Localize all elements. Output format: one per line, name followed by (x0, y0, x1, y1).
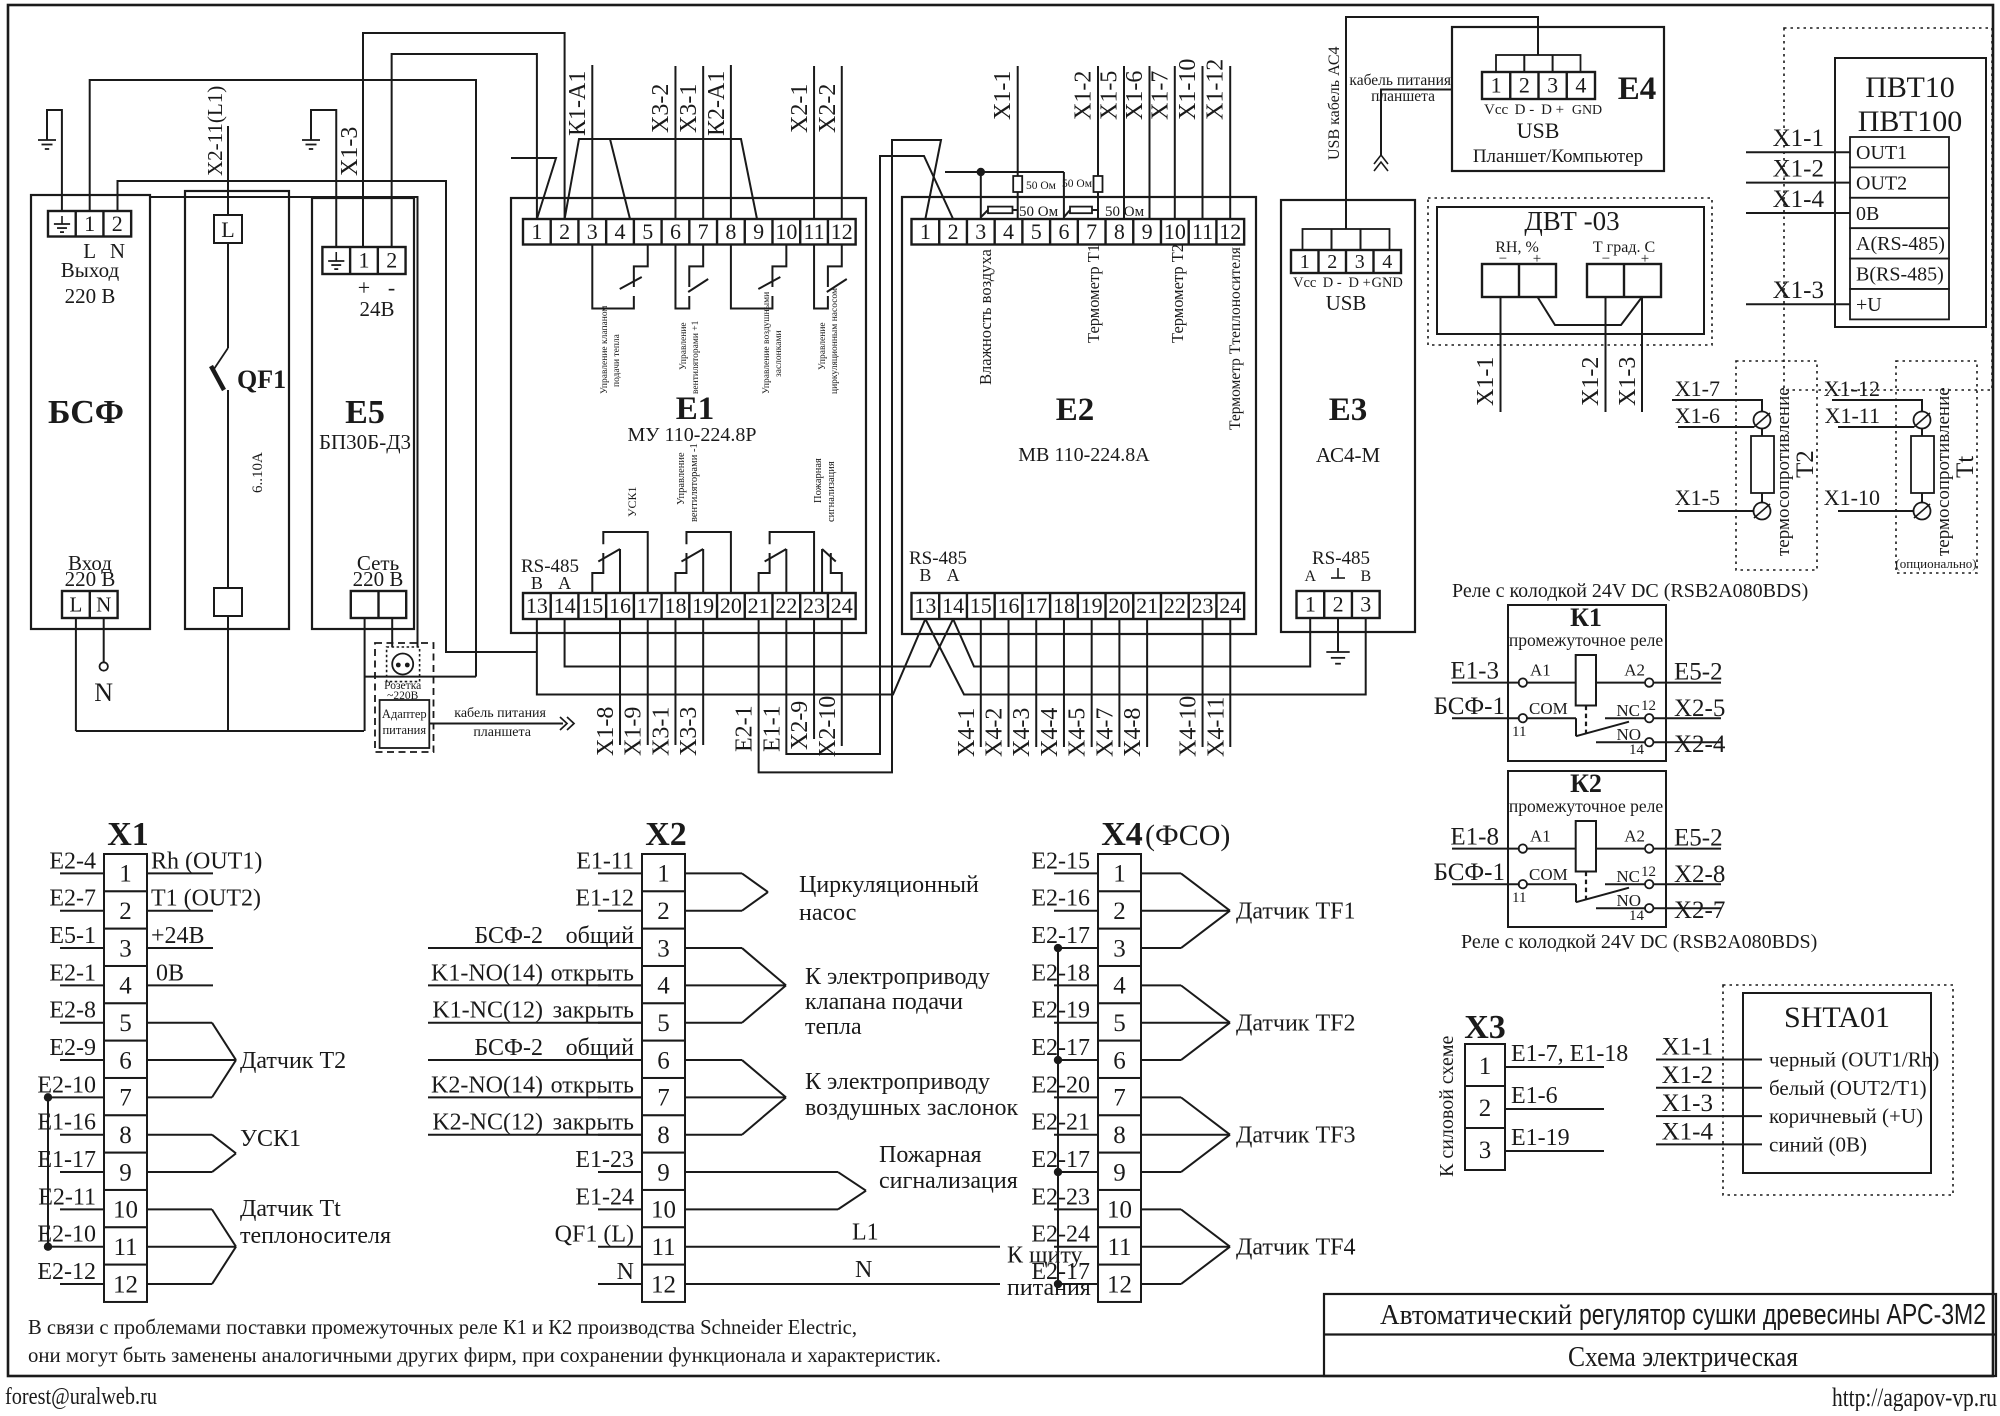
svg-text:220 В: 220 В (65, 567, 116, 591)
svg-text:А: А (1305, 568, 1317, 585)
svg-text:22: 22 (1164, 593, 1186, 618)
svg-text:Х2-5: Х2-5 (1674, 695, 1725, 722)
svg-text:Х1-2: Х1-2 (1578, 357, 1604, 406)
svg-text:1: 1 (1305, 592, 1316, 617)
sensor Tt group on X1 (147, 1208, 212, 1210)
svg-text:Управление: Управление (676, 452, 687, 505)
wire Х4-3 from E2-17 (1035, 619, 1037, 747)
svg-text:1: 1 (1300, 251, 1310, 273)
block PVT10 inner (1835, 58, 1986, 327)
svg-text:Термометр Т2: Термометр Т2 (1168, 244, 1187, 343)
svg-text:Циркуляционный: Циркуляционный (799, 872, 979, 898)
svg-text:вентиляторами -1: вентиляторами -1 (689, 443, 700, 522)
wire Х4-4 from E2-18 (1063, 619, 1065, 747)
svg-text:+U: +U (1856, 294, 1882, 316)
svg-text:6: 6 (657, 1047, 670, 1074)
svg-text:Е2-19: Е2-19 (1031, 998, 1090, 1024)
terminal strip DVT T (1587, 264, 1661, 297)
svg-text:БСФ-2: БСФ-2 (474, 1035, 543, 1061)
svg-text:Х1-5: Х1-5 (1675, 485, 1720, 510)
svg-text:11: 11 (651, 1234, 675, 1261)
svg-text:X3: X3 (1464, 1009, 1506, 1046)
svg-text:они могут быть заменены аналог: они могут быть заменены аналогичными дру… (28, 1343, 941, 1367)
svg-text:Е2-20: Е2-20 (1031, 1072, 1090, 1098)
svg-text:USB: USB (1517, 118, 1560, 143)
terminal strip E4 USB (1482, 72, 1595, 99)
svg-text:Е2-1: Е2-1 (732, 705, 758, 752)
svg-text:9: 9 (1142, 219, 1153, 244)
svg-text:5: 5 (1031, 219, 1042, 244)
svg-text:11: 11 (1512, 724, 1526, 740)
svg-text:Е5-1: Е5-1 (49, 923, 96, 949)
svg-text:А: А (947, 565, 960, 585)
svg-text:Х1-2: Х1-2 (1773, 156, 1824, 183)
pin B(RS-485) of PVT10 (1850, 259, 1949, 289)
wire RS-485 B to E3 (925, 619, 1365, 695)
svg-text:питания: питания (382, 723, 426, 737)
svg-text:ПВТ10: ПВТ10 (1865, 71, 1955, 104)
svg-text:20: 20 (1108, 593, 1130, 618)
svg-text:14: 14 (554, 593, 576, 618)
svg-text:10: 10 (1107, 1197, 1132, 1224)
block E4 tablet (1452, 27, 1664, 171)
wire T1 OUT2 from X1-2 (147, 910, 213, 912)
terminal strip E5 mains (351, 591, 406, 618)
svg-text:ПВТ100: ПВТ100 (1858, 105, 1963, 138)
svg-text:14: 14 (1629, 908, 1645, 924)
svg-text:Х1-10: Х1-10 (1824, 485, 1880, 510)
terminal strip DVT RH (1482, 264, 1556, 297)
arrow tablet cable (560, 717, 567, 730)
wire Х4-8 from E2-21 (1146, 619, 1148, 747)
wire bus E5-1 to E1-2 (+24V) (363, 33, 565, 247)
svg-text:K2-NC(12): K2-NC(12) (432, 1110, 543, 1136)
terminal strip BSF output (48, 211, 131, 237)
svg-text:Управление клапаном: Управление клапаном (600, 306, 610, 394)
svg-text:D +: D + (1541, 102, 1564, 118)
svg-text:Х1-6: Х1-6 (1122, 71, 1148, 120)
svg-text:Х1-7: Х1-7 (1147, 71, 1173, 120)
wire mains L horizontal (76, 730, 364, 732)
svg-text:БСФ-1: БСФ-1 (1434, 693, 1505, 720)
svg-text:13: 13 (914, 593, 936, 618)
svg-text:50 Ом: 50 Ом (1062, 178, 1093, 190)
svg-text:Е2-1: Е2-1 (49, 960, 96, 986)
svg-text:Е2-23: Е2-23 (1031, 1184, 1090, 1210)
svg-text:Х1-4: Х1-4 (1662, 1118, 1714, 1145)
svg-text:Датчик ТF1: Датчик ТF1 (1236, 899, 1355, 925)
svg-text:12: 12 (1107, 1271, 1132, 1298)
svg-text:коричневый (+U): коричневый (+U) (1769, 1104, 1923, 1128)
svg-text:1: 1 (920, 219, 931, 244)
svg-text:Е2: Е2 (1056, 392, 1095, 428)
svg-text:15: 15 (970, 593, 992, 618)
wire N to power panel (685, 1283, 1000, 1285)
svg-text:закрыть: закрыть (553, 998, 634, 1024)
svg-text:4: 4 (1382, 251, 1392, 273)
wire Rh OUT1 from X1-1 (147, 872, 213, 874)
svg-text:24В: 24В (359, 297, 394, 321)
svg-text:ДВТ -03: ДВТ -03 (1524, 206, 1619, 236)
contact E1 relay 4 (cells 11-12) (814, 245, 828, 309)
svg-text:Х4-4: Х4-4 (1037, 708, 1063, 757)
svg-text:X1: X1 (107, 816, 149, 853)
svg-text:Rh (OUT1): Rh (OUT1) (151, 848, 262, 874)
svg-text:Термометр Ттеплоносителя: Термометр Ттеплоносителя (1227, 247, 1244, 430)
svg-text:1: 1 (84, 211, 95, 236)
wire Х1-9 from E1-17 (647, 619, 649, 745)
svg-text:МУ 110-224.8Р: МУ 110-224.8Р (628, 424, 757, 446)
svg-text:5: 5 (119, 1010, 132, 1037)
svg-text:(ФСО): (ФСО) (1145, 819, 1230, 852)
svg-text:кабель питания: кабель питания (1349, 72, 1451, 89)
svg-text:5: 5 (657, 1010, 670, 1037)
wire Х4-2 from E2-16 (1008, 619, 1010, 747)
svg-text:4: 4 (657, 973, 670, 1000)
svg-text:8: 8 (1113, 1122, 1126, 1149)
svg-text:10: 10 (651, 1197, 676, 1224)
wire jumper bus E1-2 to E1-9 (565, 139, 757, 219)
svg-text:Х2-10: Х2-10 (815, 696, 841, 757)
svg-text:В: В (531, 573, 543, 593)
svg-text:20: 20 (720, 593, 742, 618)
wire Х4-1 from E2-15 (980, 619, 982, 747)
svg-text:L: L (221, 217, 234, 242)
svg-text:насос: насос (799, 900, 856, 926)
wire +24V from X1-3 (147, 947, 213, 949)
svg-text:белый (OUT2/T1): белый (OUT2/T1) (1769, 1076, 1927, 1100)
svg-text:3: 3 (1355, 251, 1365, 273)
wire N bus BSF-2 (118, 181, 537, 652)
terminal strip E1 lower 13-24 (523, 593, 856, 619)
sensor Датчик ТF2 group on X4 (1141, 984, 1181, 986)
svg-text:18: 18 (664, 593, 686, 618)
svg-text:QF1 (L): QF1 (L) (555, 1222, 634, 1248)
svg-text:1: 1 (1479, 1053, 1492, 1080)
svg-text:9: 9 (1113, 1159, 1126, 1186)
svg-text:2: 2 (112, 211, 123, 236)
svg-text:Х3-1: Х3-1 (648, 707, 674, 756)
svg-text:А1: А1 (1530, 661, 1551, 680)
svg-text:8: 8 (119, 1122, 132, 1149)
svg-text:19: 19 (1081, 593, 1103, 618)
terminal L of QF1 (214, 215, 242, 243)
svg-text:Е1-7, Е1-18: Е1-7, Е1-18 (1511, 1041, 1628, 1067)
wire RS-485 A net E1-14 to E2-14 (565, 619, 954, 667)
svg-text:сигнализация: сигнализация (826, 461, 837, 522)
svg-text:17: 17 (1025, 593, 1047, 618)
wire tablet power cable (429, 723, 563, 725)
svg-text:промежуточное реле: промежуточное реле (1509, 630, 1663, 650)
svg-text:Х1-12: Х1-12 (1203, 59, 1229, 120)
svg-text:Х4-1: Х4-1 (954, 708, 980, 757)
svg-text:0В: 0В (1856, 203, 1879, 225)
svg-text:Х4-3: Х4-3 (1009, 708, 1035, 757)
wire K1-NC(12) to X2-5 (428, 1022, 642, 1024)
wire K2-NO(14) to X2-7 (428, 1096, 642, 1098)
svg-text:2: 2 (1327, 251, 1337, 273)
svg-text:А2: А2 (1624, 827, 1645, 846)
contact E1 relay 3 (cells 8-10) (731, 245, 773, 309)
USB comb E3 (1303, 229, 1390, 250)
svg-text:А: А (558, 573, 571, 593)
svg-text:D -: D - (1323, 275, 1342, 291)
svg-text:Х2-2: Х2-2 (815, 84, 841, 133)
svg-text:50 Ом: 50 Ом (1026, 180, 1057, 192)
svg-text:А2: А2 (1624, 661, 1645, 680)
terminal strip E3 RS-485 (1297, 591, 1380, 618)
svg-text:В: В (1360, 568, 1371, 585)
svg-text:Е1: Е1 (676, 391, 715, 427)
block BSF (31, 195, 150, 629)
svg-text:11: 11 (1512, 890, 1526, 906)
wire K2-NC(12) to X2-8 (428, 1134, 642, 1136)
svg-text:1: 1 (1491, 73, 1502, 98)
terminal bottom of QF1 (214, 588, 242, 616)
wire Х1-1 to SHTA01 (1656, 1059, 1762, 1061)
svg-text:Влажность воздуха: Влажность воздуха (976, 249, 995, 385)
svg-text:Х3-2: Х3-2 (648, 84, 674, 133)
svg-text:Тt: Тt (1952, 456, 1979, 478)
wire Е1-6 from X3-2 (1505, 1108, 1604, 1110)
svg-text:A(RS-485): A(RS-485) (1856, 233, 1945, 255)
svg-text:12: 12 (1219, 219, 1241, 244)
wire socket to 220V riser (365, 676, 476, 678)
wire RS-485 A to E3 (953, 619, 1310, 667)
svg-text:http://agapov-vp.ru: http://agapov-vp.ru (1832, 1383, 1997, 1411)
svg-text:открыть: открыть (551, 960, 634, 986)
contact E1 relay 1 (cells 3-5) (592, 245, 634, 309)
wire Е1-7, Е1-18 from X3-1 (1505, 1066, 1604, 1068)
svg-text:Е1-6: Е1-6 (1511, 1083, 1558, 1109)
wire Х4-5 from E2-19 (1091, 619, 1093, 747)
wire Х1-8 from E1-16 (619, 619, 621, 745)
svg-text:Vcc: Vcc (1484, 102, 1508, 118)
wire E1-1 net from E1-22 (786, 156, 953, 754)
svg-text:X4: X4 (1101, 816, 1143, 853)
svg-text:Е1-23: Е1-23 (575, 1147, 634, 1173)
fire alarm group on X2 (685, 1171, 838, 1173)
svg-text:3: 3 (1113, 935, 1126, 962)
svg-text:БСФ: БСФ (48, 394, 124, 431)
block E5 power supply (312, 198, 414, 629)
svg-text:B(RS-485): B(RS-485) (1856, 264, 1944, 286)
wire BSF N with terminal (103, 618, 105, 662)
socket assembly dashed box (375, 643, 434, 752)
svg-text:подачи тепла: подачи тепла (612, 333, 622, 387)
svg-text:Е2-7: Е2-7 (49, 886, 96, 912)
junction E2-10 on X1 (48, 1096, 60, 1098)
svg-text:Х4-5: Х4-5 (1065, 708, 1091, 757)
wire Х1-3 to SHTA01 (1656, 1115, 1762, 1117)
svg-text:10: 10 (775, 219, 797, 244)
pin 0В of PVT10 (1850, 198, 1949, 228)
svg-text:D +: D + (1349, 275, 1371, 291)
svg-text:5: 5 (1113, 1010, 1126, 1037)
svg-text:БСФ-1: БСФ-1 (1434, 859, 1505, 886)
svg-text:OUT1: OUT1 (1856, 142, 1907, 164)
wire X2-10 from E1-24 (841, 619, 843, 746)
terminal strip E5 24V (322, 247, 405, 274)
svg-text:Е5-2: Е5-2 (1674, 659, 1723, 686)
contact E1 relay 6 (cells 18-20) (675, 553, 686, 593)
svg-text:2: 2 (386, 248, 397, 273)
svg-text:Е5-2: Е5-2 (1674, 825, 1723, 852)
svg-text:Х2-1: Х2-1 (787, 84, 813, 133)
svg-text:4: 4 (1003, 219, 1014, 244)
svg-text:планшета: планшета (1371, 88, 1435, 105)
terminal strip E3 USB (1291, 250, 1401, 273)
svg-text:СОМ: СОМ (1529, 865, 1568, 884)
adapter box (380, 700, 430, 748)
svg-text:В связи с проблемами поставки: В связи с проблемами поставки промежуточ… (28, 1315, 857, 1339)
svg-text:N: N (94, 678, 113, 707)
block SHTA01 dotted (1723, 985, 1953, 1195)
svg-text:заслонками: заслонками (774, 330, 784, 377)
svg-text:Х1-5: Х1-5 (1097, 71, 1123, 120)
svg-text:Е4: Е4 (1618, 71, 1657, 107)
svg-text:Планшет/Компьютер: Планшет/Компьютер (1473, 146, 1643, 167)
svg-text:11: 11 (1107, 1234, 1131, 1261)
wire X1-1 from DVT RH- (1500, 297, 1502, 412)
svg-text:3: 3 (657, 935, 670, 962)
sensor Датчик ТF4 group on X4 (1141, 1208, 1181, 1210)
svg-text:QF1: QF1 (237, 365, 286, 394)
svg-text:вентиляторами +1: вентиляторами +1 (691, 320, 701, 394)
svg-text:24: 24 (1219, 593, 1241, 618)
svg-text:3: 3 (1547, 73, 1558, 98)
svg-text:K1-NC(12): K1-NC(12) (432, 998, 543, 1024)
wire Х1-1 to PVT10 (1746, 151, 1850, 153)
svg-text:воздушных заслонок: воздушных заслонок (805, 1095, 1018, 1121)
svg-text:Х1-11: Х1-11 (1825, 403, 1880, 428)
svg-text:Е2-8: Е2-8 (49, 998, 96, 1024)
svg-text:T1 (OUT2): T1 (OUT2) (151, 886, 261, 912)
svg-text:Е2-9: Е2-9 (49, 1035, 96, 1061)
svg-text:Е1-17: Е1-17 (37, 1147, 96, 1173)
sensor T2 group on X1 (147, 1022, 212, 1024)
svg-text:Термометр Т1: Термометр Т1 (1084, 244, 1103, 343)
svg-text:Е2-4: Е2-4 (49, 848, 96, 874)
svg-text:21: 21 (1136, 593, 1158, 618)
wire tablet power cable stub (1381, 90, 1452, 156)
svg-text:Адаптер: Адаптер (382, 707, 427, 721)
wire BSF top to socket (150, 197, 418, 647)
sensor Датчик ТF3 group on X4 (1141, 1096, 1181, 1098)
relay K2 (1508, 771, 1666, 927)
resistor 50 Ohm E2-3/4 (981, 210, 988, 217)
svg-text:16: 16 (609, 593, 631, 618)
svg-text:Реле с колодкой 24V DC (RSB2A0: Реле с колодкой 24V DC (RSB2A080BDS) (1452, 580, 1808, 602)
svg-text:Е3: Е3 (1329, 392, 1368, 428)
socket 220V dotted box (387, 647, 420, 682)
svg-text:NC: NC (1616, 701, 1640, 720)
terminal strip E2 upper 1-12 (912, 219, 1245, 245)
wire Х4-10 from E2-23 (1202, 619, 1204, 747)
svg-text:D -: D - (1515, 102, 1535, 118)
wire K1-NO(14) to X2-4 (428, 984, 642, 986)
svg-text:21: 21 (748, 593, 770, 618)
svg-text:Vcc: Vcc (1293, 275, 1316, 291)
svg-text:УСК1: УСК1 (625, 486, 639, 517)
svg-text:Х1-4: Х1-4 (1773, 186, 1825, 213)
svg-text:УСК1: УСК1 (240, 1126, 301, 1152)
thermistor Tt (optional) (1896, 361, 1977, 573)
svg-text:6: 6 (1113, 1047, 1126, 1074)
svg-text:4: 4 (1575, 73, 1586, 98)
svg-text:0В: 0В (156, 960, 184, 986)
wire Х3-1 from E1-18 (674, 619, 676, 745)
svg-text:Реле с колодкой 24V DC (RSB2A0: Реле с колодкой 24V DC (RSB2A080BDS) (1461, 931, 1817, 953)
svg-text:X2: X2 (645, 816, 687, 853)
wire 0V from X1-4 (147, 984, 213, 986)
svg-text:14: 14 (1629, 742, 1645, 758)
svg-text:Датчик ТF2: Датчик ТF2 (1236, 1011, 1355, 1037)
resistor 50 Ohm E2-6/7 (1064, 210, 1070, 217)
svg-text:Х4-10: Х4-10 (1176, 696, 1202, 757)
ground at E3 RS-485 (1337, 618, 1339, 652)
svg-text:сигнализация: сигнализация (879, 1168, 1018, 1194)
svg-text:1: 1 (358, 248, 369, 273)
svg-text:22: 22 (775, 593, 797, 618)
svg-text:Датчик Т2: Датчик Т2 (240, 1048, 346, 1074)
svg-text:синий (0В): синий (0В) (1769, 1132, 1867, 1156)
svg-text:4: 4 (615, 219, 626, 244)
svg-text:термосопротивление: термосопротивление (1933, 387, 1954, 556)
wire DVT RH+ to T+ bridge (1538, 297, 1643, 325)
svg-text:1: 1 (657, 861, 670, 888)
svg-text:Управление воздушными: Управление воздушными (762, 292, 772, 394)
svg-text:8: 8 (657, 1122, 670, 1149)
svg-text:закрыть: закрыть (553, 1110, 634, 1136)
svg-text:2: 2 (1479, 1095, 1492, 1122)
svg-text:2: 2 (119, 898, 132, 925)
svg-text:8: 8 (725, 219, 736, 244)
svg-text:БСФ-2: БСФ-2 (474, 923, 543, 949)
wire X1-3 from DVT T+ (1641, 297, 1643, 412)
svg-text:Е1-8: Е1-8 (1450, 824, 1499, 851)
wire Х1-3 to PVT10 (1746, 303, 1850, 305)
svg-text:7: 7 (1086, 219, 1097, 244)
wire USB cable AC4 (1346, 17, 1538, 229)
block E1 MU110 (511, 198, 866, 633)
svg-text:Пожарная: Пожарная (879, 1142, 982, 1168)
svg-text:Е2-11: Е2-11 (38, 1184, 96, 1210)
pin OUT1 of PVT10 (1850, 137, 1949, 167)
terminal strip E2 lower 13-24 (912, 593, 1245, 619)
svg-text:USB: USB (1326, 291, 1367, 315)
svg-text:12: 12 (831, 219, 853, 244)
svg-text:15: 15 (581, 593, 603, 618)
svg-text:K1-NO(14): K1-NO(14) (431, 960, 543, 986)
svg-text:N: N (96, 593, 111, 617)
svg-text:Датчик ТF4: Датчик ТF4 (1236, 1235, 1355, 1261)
wire Х1-2 to PVT10 (1746, 182, 1850, 184)
svg-text:Х1-3: Х1-3 (337, 127, 363, 176)
svg-text:К электроприводу: К электроприводу (805, 964, 990, 990)
svg-text:Управление: Управление (818, 322, 828, 370)
svg-text:Е2-15: Е2-15 (1031, 848, 1090, 874)
svg-text:промежуточное реле: промежуточное реле (1509, 796, 1663, 816)
svg-text:NC: NC (1616, 867, 1640, 886)
svg-text:GND: GND (1371, 275, 1402, 291)
svg-text:SHTA01: SHTA01 (1784, 1001, 1890, 1034)
svg-text:К2: К2 (1570, 769, 1602, 798)
svg-text:9: 9 (119, 1159, 132, 1186)
svg-text:Х1-8: Х1-8 (593, 707, 619, 756)
svg-text:МВ 110-224.8А: МВ 110-224.8А (1018, 444, 1150, 466)
svg-text:К электроприводу: К электроприводу (805, 1069, 990, 1095)
